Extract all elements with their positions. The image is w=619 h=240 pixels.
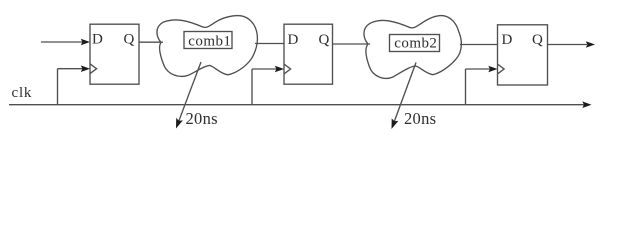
svg-text:comb1: comb1 xyxy=(188,33,231,49)
U2 clock arrow wire xyxy=(252,68,277,70)
delay arrow for comb2 xyxy=(393,63,416,125)
D flip-flop U2 xyxy=(284,24,333,84)
wire comb2 to U3.D xyxy=(460,44,498,46)
svg-text:20ns: 20ns xyxy=(186,109,218,128)
U1 clock arrow wire xyxy=(58,68,83,70)
D flip-flop U3 xyxy=(498,25,548,85)
clk riser 3 xyxy=(465,69,467,105)
output wire from U3.Q xyxy=(548,44,588,46)
delay arrowhead 1 xyxy=(176,118,183,129)
svg-text:Q: Q xyxy=(124,32,135,48)
svg-text:Q: Q xyxy=(319,32,330,48)
combinational cloud comb1 xyxy=(157,16,257,77)
delay arrow for comb1 xyxy=(178,62,201,124)
delay arrowhead 2 xyxy=(392,118,399,129)
svg-text:Q: Q xyxy=(532,32,543,48)
D flip-flop U1 xyxy=(90,24,139,84)
wire U1.Q to comb1 xyxy=(139,41,163,43)
output arrowhead xyxy=(586,41,595,48)
U1 clock wedge xyxy=(90,64,97,74)
U1 clock arrowhead xyxy=(81,65,90,72)
svg-text:D: D xyxy=(502,32,513,48)
comb1 value box xyxy=(184,32,232,49)
U2 clock arrowhead xyxy=(275,66,284,73)
clk riser 1 xyxy=(57,69,59,105)
clk distribution line xyxy=(9,104,584,106)
wire U2.Q to comb2 xyxy=(333,43,371,45)
svg-text:D: D xyxy=(288,32,299,48)
clk riser 2 xyxy=(251,69,253,105)
wire input to D of U1 xyxy=(41,41,83,43)
U3 clock arrowhead xyxy=(488,66,497,73)
svg-text:20ns: 20ns xyxy=(404,109,436,128)
comb2 value box xyxy=(390,35,440,52)
input arrowhead at U1.D xyxy=(81,39,90,46)
svg-text:clk: clk xyxy=(12,85,33,101)
U2 clock wedge xyxy=(284,64,291,74)
svg-text:D: D xyxy=(92,32,103,48)
wire comb1 to U2.D xyxy=(255,43,284,45)
U3 clock arrow wire xyxy=(466,68,491,70)
svg-text:comb2: comb2 xyxy=(394,36,437,52)
combinational cloud comb2 xyxy=(364,16,461,79)
clk line arrowhead xyxy=(582,101,591,108)
U3 clock wedge xyxy=(498,64,505,74)
